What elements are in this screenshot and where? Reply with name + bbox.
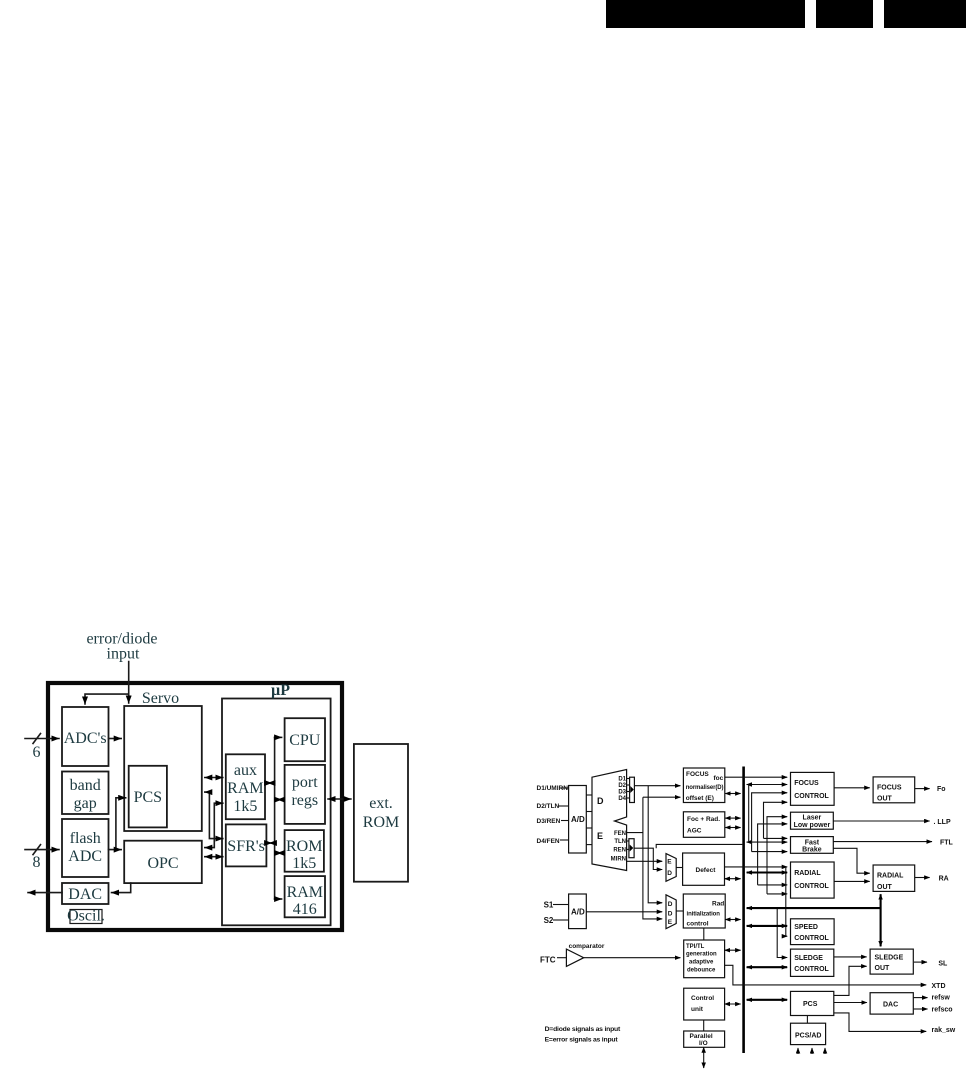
svg-text:CONTROL: CONTROL	[794, 883, 829, 890]
svg-text:FTL: FTL	[940, 840, 954, 847]
svg-text:OUT: OUT	[877, 796, 893, 803]
svg-text:offset (E): offset (E)	[686, 795, 714, 802]
svg-text:port: port	[292, 774, 318, 791]
svg-text:aux: aux	[234, 762, 257, 779]
svg-text:debounce: debounce	[687, 968, 716, 974]
svg-text:Laser: Laser	[803, 815, 822, 822]
svg-text:PCS/AD: PCS/AD	[795, 1033, 821, 1040]
svg-text:regs: regs	[291, 792, 318, 809]
svg-text:AGC: AGC	[687, 828, 702, 835]
svg-text:Oscil.: Oscil.	[67, 908, 105, 925]
svg-text:D: D	[668, 911, 673, 918]
svg-text:XTD: XTD	[932, 983, 946, 990]
svg-text:SLEDGE: SLEDGE	[794, 955, 823, 962]
svg-text:foc: foc	[714, 775, 724, 782]
svg-text:CONTROL: CONTROL	[794, 793, 829, 800]
svg-text:FOCUS: FOCUS	[877, 785, 902, 792]
svg-text:6: 6	[33, 744, 41, 761]
svg-text:FTC: FTC	[540, 956, 556, 965]
svg-text:input: input	[107, 646, 140, 663]
svg-text:E: E	[667, 859, 672, 866]
svg-text:µP: µP	[271, 682, 290, 699]
svg-text:D: D	[597, 796, 604, 806]
svg-text:ROM: ROM	[286, 838, 322, 855]
svg-text:SFR's: SFR's	[227, 838, 265, 855]
svg-text:D: D	[668, 901, 673, 908]
svg-text:TPI/TL: TPI/TL	[686, 944, 705, 950]
svg-text:SL: SL	[938, 961, 948, 968]
svg-text:D4/FEN: D4/FEN	[537, 838, 560, 845]
svg-text:A/D: A/D	[571, 815, 585, 824]
svg-text:Brake: Brake	[802, 847, 822, 854]
svg-text:gap: gap	[74, 795, 97, 812]
svg-text:Low power: Low power	[794, 822, 831, 829]
svg-text:initialization: initialization	[687, 912, 721, 918]
svg-text:RADIAL: RADIAL	[877, 873, 904, 880]
svg-text:refsco: refsco	[932, 1007, 953, 1014]
svg-text:Defect: Defect	[696, 867, 717, 874]
svg-text:D=diode signals as input: D=diode signals as input	[545, 1026, 621, 1033]
svg-text:Fast: Fast	[805, 840, 820, 847]
svg-text:ROM: ROM	[363, 814, 399, 831]
svg-text:1k5: 1k5	[292, 855, 316, 872]
svg-text:OUT: OUT	[877, 884, 893, 891]
svg-text:D3: D3	[618, 790, 626, 796]
svg-text:normaliser(D): normaliser(D)	[686, 785, 724, 791]
svg-text:S1: S1	[544, 901, 554, 910]
svg-text:Fo: Fo	[937, 786, 946, 793]
svg-text:CPU: CPU	[289, 732, 321, 749]
svg-text:PCS: PCS	[803, 1001, 818, 1008]
svg-text:Rad.: Rad.	[712, 901, 726, 908]
svg-text:DAC: DAC	[68, 886, 102, 903]
svg-text:S2: S2	[544, 916, 554, 925]
svg-text:I/O: I/O	[699, 1040, 708, 1047]
svg-text:rak_sw: rak_sw	[932, 1027, 956, 1034]
svg-text:MIRN: MIRN	[611, 857, 626, 863]
svg-text:DAC: DAC	[883, 1002, 898, 1009]
svg-text:RADIAL: RADIAL	[794, 870, 821, 877]
svg-text:ext.: ext.	[369, 795, 393, 812]
svg-text:REN: REN	[613, 848, 626, 854]
svg-text:RAM: RAM	[287, 884, 323, 901]
svg-text:Servo: Servo	[142, 690, 179, 707]
svg-text:control: control	[687, 921, 709, 928]
svg-text:adaptive: adaptive	[689, 960, 714, 966]
svg-text:E=error signals as input: E=error signals as input	[545, 1037, 619, 1044]
svg-text:generation: generation	[686, 952, 717, 958]
svg-text:D: D	[667, 870, 672, 877]
svg-text:Foc + Rad.: Foc + Rad.	[687, 816, 720, 823]
svg-text:416: 416	[293, 901, 317, 918]
svg-text:D2/TLN: D2/TLN	[537, 803, 560, 810]
svg-text:D3/REN: D3/REN	[537, 818, 561, 825]
svg-text:CONTROL: CONTROL	[794, 966, 829, 973]
svg-text:RAM: RAM	[227, 780, 263, 797]
svg-text:SLEDGE: SLEDGE	[875, 955, 904, 962]
svg-text:SPEED: SPEED	[794, 924, 818, 931]
svg-text:flash: flash	[70, 830, 101, 847]
svg-text:unit: unit	[691, 1006, 704, 1013]
svg-text:comparator: comparator	[569, 943, 605, 950]
svg-text:Control: Control	[691, 995, 714, 1002]
svg-text:A/D: A/D	[571, 908, 585, 917]
svg-text:TLN: TLN	[614, 839, 626, 845]
svg-text:ADC's: ADC's	[64, 730, 107, 747]
svg-text:D1: D1	[618, 777, 626, 783]
svg-text:FOCUS: FOCUS	[794, 780, 819, 787]
svg-text:1k5: 1k5	[233, 798, 257, 815]
svg-text:CONTROL: CONTROL	[794, 935, 829, 942]
svg-text:FOCUS: FOCUS	[686, 771, 709, 778]
svg-text:8: 8	[33, 854, 41, 871]
svg-text:PCS: PCS	[134, 789, 162, 806]
svg-text:OPC: OPC	[147, 855, 178, 872]
svg-text:D2: D2	[618, 783, 626, 789]
svg-text:D4: D4	[618, 796, 626, 802]
svg-text:refsw: refsw	[932, 995, 951, 1002]
svg-text:E: E	[597, 831, 603, 841]
svg-text:FEN: FEN	[614, 831, 626, 837]
svg-text:OUT: OUT	[875, 965, 891, 972]
svg-text:. LLP: . LLP	[934, 819, 951, 826]
svg-text:Parallel: Parallel	[690, 1033, 713, 1040]
svg-text:RA: RA	[939, 876, 949, 883]
svg-text:band: band	[70, 777, 101, 794]
svg-text:E: E	[668, 919, 673, 926]
svg-text:ADC: ADC	[68, 848, 102, 865]
svg-text:D1/UMIRN: D1/UMIRN	[537, 785, 569, 792]
